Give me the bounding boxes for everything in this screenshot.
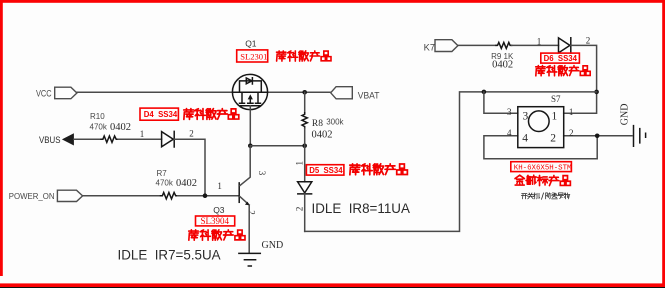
node junction VBAT/R8 [302, 90, 307, 95]
label box D5 SS34 [306, 165, 344, 175]
node junction D4/R7/base [203, 193, 208, 198]
wire S7 pin 2 to GND [564, 135, 632, 137]
svg-text:R10: R10 [90, 112, 105, 121]
svg-text:R8: R8 [312, 119, 323, 129]
wire Q1 drain to VBAT [267, 91, 330, 93]
wire K7 to R9 [458, 44, 496, 46]
node junction gate/collector [248, 144, 253, 149]
Q1 body diode [246, 78, 252, 84]
svg-text:IDLE IR7=5.5UA: IDLE IR7=5.5UA [118, 248, 221, 263]
label box KH-6X6X5H-STM [511, 162, 572, 172]
svg-text:0402: 0402 [110, 122, 131, 133]
switch S7 body [518, 107, 564, 148]
svg-text:IDLE IR8=11UA: IDLE IR8=11UA [312, 201, 410, 216]
svg-text:S7: S7 [551, 94, 561, 104]
svg-text:D6 SS34: D6 SS34 [544, 54, 578, 63]
wire R9 to D6 [512, 44, 559, 46]
svg-text:4: 4 [522, 132, 528, 144]
note 开关机/防丢寻物 [521, 193, 539, 199]
svg-text:300k: 300k [326, 118, 344, 127]
brand text 萨科微产品 (D5) [350, 164, 408, 175]
wire Q3 emitter to GND [248, 206, 250, 254]
brand text 萨科微产品 (Q1) [277, 51, 331, 61]
resistor R8 [302, 113, 307, 129]
svg-text:GND: GND [262, 240, 284, 251]
svg-text:0402: 0402 [312, 130, 333, 141]
Q1 channel contacts [242, 92, 258, 102]
svg-text:Q3: Q3 [213, 205, 225, 215]
diode D5 SS34 [298, 182, 312, 194]
svg-text:0402: 0402 [176, 178, 197, 189]
Q3 emitter arrow [245, 202, 250, 206]
svg-text:1: 1 [217, 181, 222, 191]
brand text 萨科微产品 (D4) [184, 109, 239, 120]
svg-text:SL3904: SL3904 [201, 216, 230, 226]
Q3 collector lead [240, 146, 250, 186]
svg-text:Q1: Q1 [245, 38, 257, 48]
Q1 substrate arrow [249, 97, 251, 103]
wire D4 to corner [174, 139, 205, 196]
border frame bottom black line [0, 287, 665, 288]
node POWER_ON port [57, 190, 82, 201]
ground GND (Q3 emitter) [239, 253, 260, 266]
label box D4 SS34 [140, 108, 178, 120]
svg-text:K7: K7 [424, 42, 435, 52]
S7 button circle [529, 111, 550, 132]
wire Q1 gate down to node [249, 106, 251, 146]
svg-text:2: 2 [569, 128, 574, 138]
wire D5 cathode down [304, 194, 306, 232]
svg-text:3: 3 [507, 107, 512, 117]
svg-text:VCC: VCC [36, 89, 52, 99]
svg-text:D4 SS34: D4 SS34 [144, 110, 178, 119]
svg-text:3: 3 [523, 111, 529, 123]
wire D6 to right vertical down to S7 pin1 [564, 45, 597, 113]
node junction pin2/pin4/GND [595, 134, 600, 139]
svg-text:1: 1 [140, 129, 145, 139]
wire R7 to Q3 base [178, 195, 239, 197]
svg-text:R7: R7 [157, 169, 168, 178]
wire gate node to R8/D5 node [250, 145, 304, 147]
svg-text:4: 4 [507, 128, 512, 138]
border frame bottom red band [0, 283, 665, 287]
node VBUS port (off-page arrow) [62, 133, 74, 145]
svg-text:2: 2 [189, 128, 194, 138]
svg-text:2: 2 [550, 132, 556, 144]
Q1 channel segments [240, 102, 261, 104]
transistor Q3 NPN base bar [238, 183, 240, 202]
svg-text:470k: 470k [156, 179, 174, 188]
svg-text:SL2301: SL2301 [240, 51, 267, 61]
border frame left [0, 0, 3, 276]
wire R10 to D4 [118, 138, 161, 140]
svg-text:POWER_ON: POWER_ON [9, 191, 55, 201]
svg-text:GND: GND [620, 104, 631, 126]
node junction R8/D5 [302, 144, 307, 149]
Q1 body-diode loop [240, 81, 262, 92]
svg-text:2: 2 [295, 207, 305, 212]
svg-text:VBUS: VBUS [39, 135, 61, 146]
wire D5 loop bottom and left vertical to top line [305, 92, 597, 232]
svg-text:470k: 470k [90, 123, 108, 132]
wire node to D5 anode [304, 146, 306, 182]
transistor Q1 P-MOSFET body circle [232, 74, 267, 109]
svg-text:1: 1 [295, 161, 305, 166]
svg-text:0402: 0402 [492, 59, 513, 70]
svg-text:3: 3 [257, 171, 267, 176]
resistor R7 [161, 193, 178, 199]
diode D6 SS34 [559, 38, 571, 53]
label box SL3904 [196, 216, 235, 226]
ground GND (right, rotated) [634, 126, 646, 147]
border frame right [662, 0, 665, 285]
svg-text:1: 1 [537, 37, 542, 47]
svg-text:2: 2 [247, 210, 257, 215]
resistor R10 [101, 136, 118, 142]
border frame top [0, 0, 665, 3]
diode D4 SS34 [162, 131, 175, 147]
brand text 萨科微产品 (Q3) [189, 230, 245, 240]
svg-text:KH-6X6X5H-STM: KH-6X6X5H-STM [514, 165, 572, 173]
wire branch down to S7 pin 3 [484, 92, 518, 113]
wire VBUS to R10 [74, 138, 101, 140]
wire VBAT node to R8 [304, 92, 306, 112]
label box D6 SS34 [541, 53, 580, 63]
node junction S7 pin3 branch [482, 90, 487, 95]
wire S7 pin 4 loop to pin 2 node [484, 136, 597, 159]
Q3 emitter lead [240, 197, 249, 205]
svg-text:D5 SS34: D5 SS34 [309, 166, 343, 175]
node K7 port [435, 40, 458, 52]
Q1 gate bar [241, 105, 261, 107]
svg-text:1: 1 [569, 107, 574, 117]
wire POWER_ON to R7 [83, 195, 161, 197]
brand text 萨科微产品 (D6) [536, 66, 590, 76]
Q1 source-drain line through body [233, 91, 268, 93]
node junction top loop / D6 [594, 90, 599, 95]
resistor R9 [496, 42, 512, 48]
node VCC port [55, 87, 77, 99]
wire VCC to Q1 source [77, 91, 233, 93]
node VBAT port [331, 87, 353, 99]
svg-text:VBAT: VBAT [358, 91, 380, 101]
svg-text:1: 1 [552, 111, 558, 123]
wire R8 to node [304, 128, 306, 146]
svg-text:2: 2 [586, 36, 591, 46]
brand text 金航标产品 [515, 175, 570, 185]
label box SL2301 [237, 50, 268, 62]
